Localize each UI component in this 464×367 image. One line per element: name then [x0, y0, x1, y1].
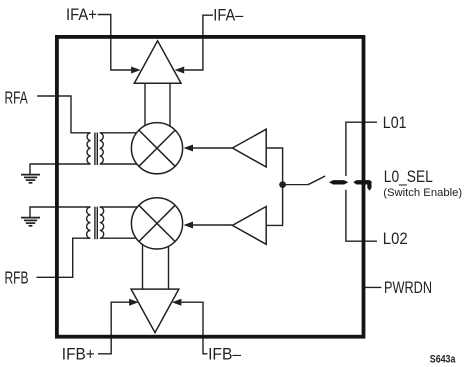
- arrowhead into mixer B: [184, 222, 194, 229]
- mixer A circle: [131, 123, 182, 174]
- svg-text:IFA+: IFA+: [66, 6, 97, 24]
- block outline: [57, 37, 364, 337]
- wire transformer B primary top to ground: [30, 207, 91, 217]
- svg-text:L0_SEL: L0_SEL: [384, 168, 433, 186]
- LO buffer B triangle: [232, 207, 266, 245]
- wire RFB lead: [37, 238, 91, 277]
- switch blade: [308, 176, 325, 185]
- arrowhead into IFA amp left: [131, 67, 141, 74]
- mixer A X: [139, 130, 175, 166]
- arrowhead into IFA amp right: [175, 67, 185, 74]
- svg-text:RFB: RFB: [5, 268, 29, 288]
- wire IFA+ lead: [98, 15, 132, 71]
- svg-text:L01: L01: [383, 114, 407, 132]
- transformer T2 core: [94, 207, 96, 240]
- wire IFA- lead: [184, 15, 213, 70]
- wire T2 secondary top to mixer B: [100, 206, 140, 208]
- transformer T2 secondary winding: [100, 207, 104, 238]
- mixer B circle: [131, 198, 182, 249]
- wire L02 pin lead: [346, 190, 377, 241]
- svg-text:IFB–: IFB–: [208, 345, 242, 363]
- transformer T2 primary winding: [87, 207, 91, 238]
- svg-text:(Switch Enable): (Switch Enable): [383, 187, 462, 199]
- op-amp IFB amplifier: [131, 289, 179, 333]
- svg-text:RFA: RFA: [5, 88, 29, 108]
- wire L01 pin lead: [346, 122, 377, 176]
- ground (B): [21, 218, 40, 226]
- arrowhead into IFB amp right: [172, 299, 182, 306]
- LO_SEL dashed control line: dash with hook through border: [353, 180, 371, 191]
- svg-text:IFB+: IFB+: [62, 345, 95, 363]
- arrowhead into mixer A: [184, 145, 194, 152]
- transformer T1 primary winding: [87, 133, 90, 164]
- svg-text:S643a: S643a: [430, 354, 456, 366]
- node junction dot: [279, 181, 286, 188]
- wire T1 secondary bottom to mixer A: [100, 163, 140, 165]
- wire LO buffer B output to mixer B: [192, 224, 233, 226]
- wire LO buffer A input elbow: [266, 148, 282, 185]
- wire LO buffer B input elbow: [266, 185, 282, 226]
- wire switch pole: [283, 184, 309, 186]
- svg-text:PWRDN: PWRDN: [384, 279, 432, 297]
- wire transformer A primary bottom to ground: [30, 164, 91, 174]
- wire T1 secondary top to mixer A: [100, 132, 140, 134]
- wire arrow shaft mixer B to IFB amp: [142, 244, 144, 289]
- arrowhead into IFB amp left: [129, 299, 139, 306]
- wire PWRDN pin lead: [362, 286, 381, 288]
- LO buffer A triangle: [232, 129, 266, 167]
- mixer B X: [139, 205, 175, 241]
- svg-text:L02: L02: [383, 230, 408, 248]
- svg-text:IFA–: IFA–: [213, 6, 244, 24]
- op-amp IFA amplifier: [134, 41, 181, 84]
- wire IFB- lead: [181, 302, 207, 354]
- wire RFA lead: [37, 96, 90, 133]
- wire IFB+ lead: [98, 302, 130, 354]
- ground (A): [21, 175, 40, 183]
- transformer T1 core: [94, 133, 96, 166]
- LO_SEL dashed control line: double-pointed dash: [329, 180, 348, 184]
- wire T2 secondary bottom to mixer B: [100, 237, 140, 239]
- wire LO buffer A output to mixer A: [192, 147, 233, 149]
- transformer T1 secondary winding: [100, 133, 103, 164]
- wire arrow shaft mixer A to IFA amp: [144, 83, 146, 128]
